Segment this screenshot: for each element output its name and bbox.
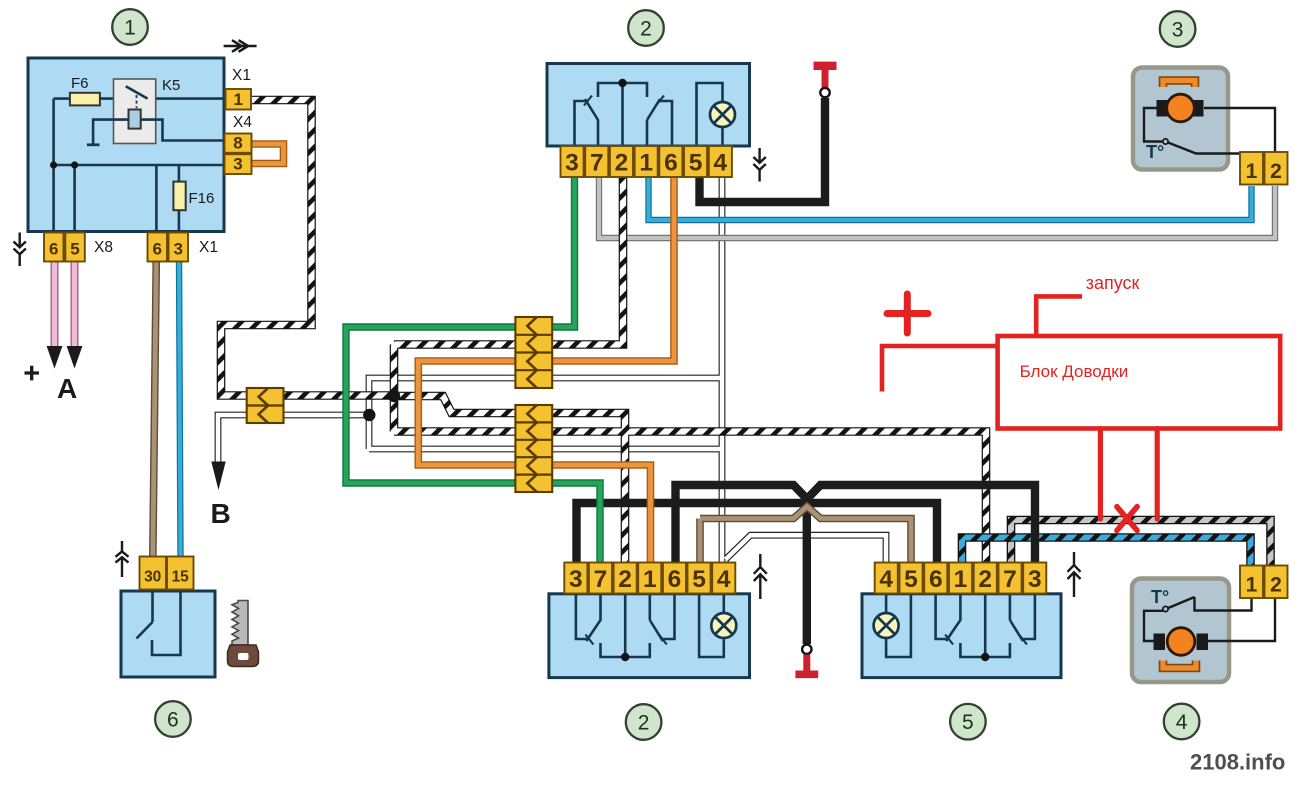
svg-text:2: 2 xyxy=(615,150,629,177)
svg-text:X1: X1 xyxy=(199,239,218,256)
svg-text:K5: K5 xyxy=(162,77,180,94)
svg-text:1: 1 xyxy=(1246,574,1258,597)
svg-text:6: 6 xyxy=(929,566,943,593)
svg-text:8: 8 xyxy=(233,134,242,153)
svg-text:2: 2 xyxy=(1270,160,1282,183)
svg-text:B: B xyxy=(211,498,231,529)
svg-text:2: 2 xyxy=(1270,574,1282,597)
svg-text:2: 2 xyxy=(638,712,650,735)
svg-text:6: 6 xyxy=(668,566,682,593)
svg-text:запуск: запуск xyxy=(1086,273,1140,293)
svg-text:3: 3 xyxy=(565,150,579,177)
svg-text:X4: X4 xyxy=(233,114,252,131)
svg-text:30: 30 xyxy=(144,569,161,586)
svg-text:2: 2 xyxy=(640,18,652,41)
svg-text:A: A xyxy=(57,373,77,404)
svg-text:T°: T° xyxy=(1151,587,1169,607)
svg-text:6: 6 xyxy=(664,150,678,177)
svg-text:5: 5 xyxy=(904,566,918,593)
svg-text:3: 3 xyxy=(1028,566,1042,593)
svg-text:F6: F6 xyxy=(71,75,89,92)
svg-text:5: 5 xyxy=(689,150,703,177)
svg-text:X1: X1 xyxy=(232,67,251,84)
svg-text:1: 1 xyxy=(643,566,657,593)
svg-text:3: 3 xyxy=(173,240,182,259)
svg-text:4: 4 xyxy=(713,150,727,177)
svg-text:6: 6 xyxy=(49,240,58,259)
svg-text:5: 5 xyxy=(692,566,706,593)
svg-text:7: 7 xyxy=(590,150,604,177)
svg-text:15: 15 xyxy=(172,569,190,586)
svg-text:T°: T° xyxy=(1146,142,1164,162)
svg-text:F16: F16 xyxy=(189,190,215,207)
svg-text:5: 5 xyxy=(962,711,974,734)
svg-text:6: 6 xyxy=(167,709,179,732)
svg-text:2: 2 xyxy=(618,566,632,593)
svg-text:5: 5 xyxy=(70,240,79,259)
svg-text:4: 4 xyxy=(1176,711,1188,734)
svg-text:1: 1 xyxy=(639,150,653,177)
svg-text:7: 7 xyxy=(1003,566,1017,593)
svg-text:3: 3 xyxy=(1172,19,1184,42)
svg-text:2108.info: 2108.info xyxy=(1190,750,1285,775)
svg-text:7: 7 xyxy=(594,566,608,593)
svg-text:Блок Доводки: Блок Доводки xyxy=(1020,362,1129,381)
svg-text:4: 4 xyxy=(879,566,893,593)
svg-text:2: 2 xyxy=(978,566,992,593)
svg-text:6: 6 xyxy=(152,240,161,259)
svg-text:X8: X8 xyxy=(94,239,113,256)
svg-text:1: 1 xyxy=(1246,160,1258,183)
svg-text:3: 3 xyxy=(569,566,583,593)
svg-text:4: 4 xyxy=(717,566,731,593)
svg-text:3: 3 xyxy=(233,155,242,174)
svg-text:1: 1 xyxy=(954,566,968,593)
svg-text:1: 1 xyxy=(233,90,242,109)
svg-text:1: 1 xyxy=(124,17,136,40)
